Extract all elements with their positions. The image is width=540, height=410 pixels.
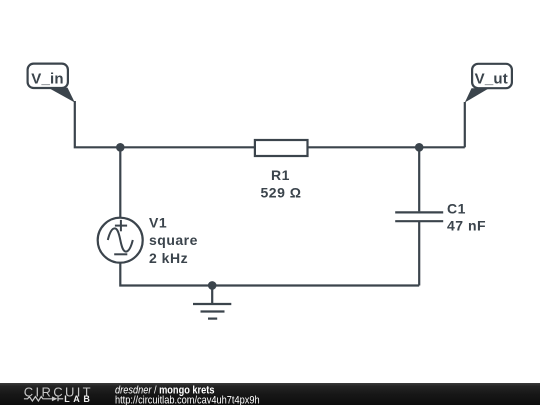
node B junction dot	[415, 143, 424, 152]
svg-text:LAB: LAB	[64, 394, 93, 404]
node ground junction dot	[208, 281, 217, 290]
svg-text:529 Ω: 529 Ω	[261, 185, 302, 201]
footer logo resistor-diode glyph	[24, 396, 63, 401]
svg-text:V_in: V_in	[31, 71, 63, 88]
footer bar	[0, 383, 540, 405]
svg-text:2 kHz: 2 kHz	[149, 250, 188, 266]
svg-text:http://circuitlab.com/cav4uh7t: http://circuitlab.com/cav4uh7t4px9h	[115, 395, 260, 405]
ground	[193, 286, 231, 319]
node A junction dot	[116, 143, 125, 152]
wire V_ut drop	[464, 102, 466, 147]
svg-text:R1: R1	[271, 167, 290, 183]
wire C1 down to bottom rail	[418, 222, 420, 286]
resistor R1	[255, 140, 308, 156]
wire V_in to top rail	[75, 101, 255, 147]
svg-text:V1: V1	[149, 215, 167, 231]
svg-text:square: square	[149, 232, 198, 248]
svg-text:47 nF: 47 nF	[447, 218, 486, 234]
capacitor C1	[395, 212, 443, 221]
wire resistor to node B	[308, 146, 465, 148]
wire node B down to C1	[418, 147, 420, 211]
svg-text:V_ut: V_ut	[475, 71, 508, 88]
wire node A down to V1	[119, 147, 121, 218]
wire V1 bottom rail	[120, 263, 419, 286]
node flag V_in	[28, 64, 75, 103]
node flag V_ut	[465, 64, 512, 103]
svg-text:C1: C1	[447, 201, 466, 217]
voltage source V1	[98, 218, 143, 263]
